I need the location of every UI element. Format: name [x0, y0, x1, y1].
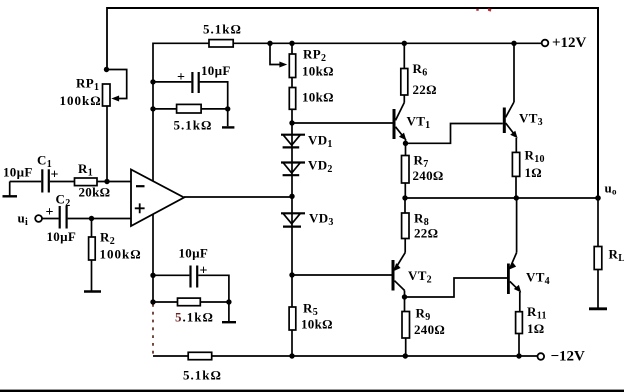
- svg-text:10kΩ: 10kΩ: [302, 90, 334, 105]
- svg-text:240Ω: 240Ω: [413, 168, 444, 183]
- label R2: [100, 230, 115, 248]
- wire: VT1 emitter to VT3 base: [406, 124, 503, 144]
- label C2: [56, 192, 71, 210]
- label 5.1k bottom net (red 5): [175, 310, 214, 325]
- wire: C1 left lead: [10, 181, 42, 183]
- svg-text:100kΩ: 100kΩ: [100, 247, 142, 262]
- node: VT1 emitter: [403, 141, 408, 146]
- capacitor C1: [42, 169, 49, 192]
- label u_o: [605, 181, 618, 197]
- svg-text:+: +: [46, 205, 54, 220]
- svg-text:1Ω: 1Ω: [527, 321, 545, 336]
- label 5.1k bottom rail: [183, 368, 222, 383]
- svg-text:240Ω: 240Ω: [414, 322, 445, 337]
- wire: to VT2 base: [292, 274, 392, 276]
- svg-text:22Ω: 22Ω: [414, 226, 438, 241]
- wire: R9 feed: [404, 297, 406, 312]
- label R7 240: [413, 168, 444, 183]
- wire: top net cap branch: [153, 81, 191, 83]
- transistor VT4: [507, 198, 521, 312]
- node: bottom net right: [226, 299, 231, 304]
- svg-text:5.1kΩ: 5.1kΩ: [175, 310, 214, 325]
- label u_i: [18, 211, 29, 229]
- node: inverting input: [104, 179, 109, 184]
- label + top cap: [177, 70, 185, 85]
- diode VD1: [281, 135, 305, 148]
- ground: input C1: [3, 182, 18, 197]
- label VD3: [309, 211, 334, 229]
- svg-text:−12V: −12V: [551, 349, 586, 365]
- label VT4: [526, 270, 550, 288]
- wire: R_L feed: [597, 198, 599, 247]
- resistor R9: [402, 312, 410, 339]
- wire: right feedback drop to output: [597, 7, 599, 198]
- node: u_o junction: [595, 195, 601, 201]
- wire: R1 to node: [97, 181, 131, 183]
- label RL: [609, 247, 624, 265]
- wire: bias chain vertical: [291, 43, 293, 356]
- label R1: [78, 161, 93, 179]
- wire: R2 drop: [91, 219, 93, 238]
- label R9: [416, 306, 431, 324]
- potentiometer RP1: [103, 84, 111, 106]
- label 10uF bottom net: [179, 246, 209, 261]
- capacitor C2: [60, 206, 67, 229]
- wire: R10 to output rail: [515, 176, 517, 198]
- wire: dashed red segment of left bus: [152, 304, 154, 355]
- svg-text:10µF: 10µF: [179, 246, 209, 261]
- wire: u_i to C2: [42, 218, 59, 220]
- label 5.1k top: [203, 22, 242, 37]
- node: +12V junction: [511, 41, 516, 46]
- node: top net left upper: [150, 79, 155, 84]
- resistor R1: [75, 178, 98, 186]
- ground: RL: [589, 270, 607, 309]
- potentiometer RP2: [289, 54, 295, 78]
- svg-text:20kΩ: 20kΩ: [79, 185, 111, 200]
- resistor 5.1k top net: [177, 104, 202, 113]
- wire: top net cap right: [200, 82, 228, 109]
- label 100k R2: [100, 247, 142, 262]
- svg-text:10kΩ: 10kΩ: [301, 317, 333, 332]
- wire: bottom net resistor branch: [153, 301, 229, 303]
- resistor 5.1k top rail: [209, 40, 233, 47]
- wire: R6 feed: [403, 43, 405, 68]
- label R10: [525, 148, 545, 166]
- node: RP1 top junction: [104, 67, 109, 72]
- bottom border bar: [0, 390, 624, 392]
- resistor 5.1k bottom net: [178, 298, 201, 306]
- svg-text:10µF: 10µF: [3, 165, 33, 180]
- resistor 10k bias: [289, 88, 295, 110]
- label +12V: [552, 35, 587, 51]
- wire: top net resistor branch: [153, 108, 228, 110]
- label VT1: [407, 114, 431, 132]
- node: chain bottom: [289, 353, 294, 358]
- terminal -12V: [538, 353, 545, 360]
- svg-text:100kΩ: 100kΩ: [60, 93, 102, 108]
- label 10k bias: [302, 90, 334, 105]
- label R8: [414, 211, 429, 229]
- node: bottom rail left column: [403, 353, 408, 358]
- svg-text:5.1kΩ: 5.1kΩ: [203, 22, 242, 37]
- label R11: [527, 304, 547, 322]
- svg-text:22Ω: 22Ω: [413, 82, 437, 97]
- node: bottom net left lower: [150, 299, 155, 304]
- node: VD1 top / VT1 base feed: [289, 120, 294, 125]
- wire: RP2 wiper: [270, 43, 287, 67]
- label VD2: [308, 158, 333, 176]
- diode VD2: [281, 163, 305, 176]
- svg-text:+: +: [200, 264, 208, 279]
- wire: to VT1 base: [292, 122, 393, 124]
- label R5 10k: [301, 317, 333, 332]
- label 20k R1: [79, 185, 111, 200]
- wire: top feedback rail: [107, 7, 598, 9]
- label RP1 value 100k: [60, 93, 102, 108]
- svg-text:+: +: [177, 70, 185, 85]
- resistor R7: [402, 156, 410, 184]
- wire: RP1 wiper loop: [107, 70, 127, 102]
- resistor R11: [516, 312, 523, 334]
- wire: RP1 top feed: [106, 7, 108, 70]
- label 10uF top net: [201, 63, 231, 78]
- svg-text:1Ω: 1Ω: [525, 165, 543, 180]
- red watermark speck 1: [476, 9, 478, 11]
- wire: R8 feed: [404, 198, 406, 213]
- wire: R11 to bottom rail: [518, 334, 520, 357]
- node: output rail right column: [514, 195, 519, 200]
- wire: C2 to op-amp: [68, 218, 131, 220]
- wire: VT2 to VT4 base: [405, 278, 508, 297]
- label VT2: [408, 268, 432, 286]
- resistor R6: [401, 69, 408, 96]
- label + C2: [46, 205, 54, 220]
- label R6 22: [413, 82, 437, 97]
- label -12V: [551, 349, 586, 365]
- transistor VT1: [393, 95, 407, 156]
- label R5: [303, 301, 318, 319]
- svg-text:10µF: 10µF: [201, 63, 231, 78]
- terminal +12V: [542, 40, 549, 47]
- label RP2 10k: [302, 64, 334, 79]
- node: bottom net left upper: [150, 273, 155, 278]
- transistor VT3: [503, 43, 518, 152]
- svg-text:+: +: [51, 168, 59, 183]
- resistor R5: [289, 307, 296, 330]
- resistor R8: [402, 213, 409, 239]
- label R8 22: [414, 226, 438, 241]
- wire: op-amp output: [184, 196, 292, 198]
- label + C1: [51, 168, 59, 183]
- op-amp U1: [131, 170, 184, 227]
- node: output rail left column: [402, 195, 407, 200]
- wire: inner top rail: [153, 42, 542, 44]
- capacitor 10uF top net: [192, 72, 198, 93]
- svg-text:5.1kΩ: 5.1kΩ: [174, 118, 213, 133]
- node: op-amp output junction: [289, 194, 294, 199]
- resistor R2: [89, 237, 96, 260]
- diode VD3: [281, 213, 305, 226]
- svg-text:10kΩ: 10kΩ: [302, 64, 334, 79]
- wire: RP1 bottom to R1 node: [106, 106, 108, 181]
- node: rail RP2 wiper tap: [267, 41, 272, 46]
- label VD1: [308, 133, 333, 151]
- label R9 240: [414, 322, 445, 337]
- label 10uF C1: [3, 165, 33, 180]
- label 10uF C2: [47, 229, 77, 244]
- transistor VT2: [392, 239, 406, 298]
- wire: left vertical bus x153: [152, 43, 154, 303]
- wire: bottom net cap right: [198, 275, 229, 302]
- label R10 1ohm: [525, 165, 543, 180]
- label + bottom cap: [200, 264, 208, 279]
- node: bottom rail right column: [516, 353, 521, 358]
- node: R6 top: [402, 41, 407, 46]
- label R7: [414, 153, 429, 171]
- svg-text:5.1kΩ: 5.1kΩ: [183, 368, 222, 383]
- node: top net right: [225, 106, 230, 111]
- wire: C1 to R1: [50, 181, 75, 183]
- ground: top net: [222, 109, 234, 128]
- svg-text:10µF: 10µF: [47, 229, 77, 244]
- resistor 5.1k bottom rail: [188, 352, 212, 359]
- wire: output rail to u_o: [405, 197, 598, 199]
- wire: bottom net cap branch: [153, 274, 189, 276]
- ground: R2: [84, 260, 101, 292]
- node: rail RP2 top: [289, 41, 294, 46]
- capacitor 10uF bottom net: [191, 266, 198, 288]
- wire: R7 to output rail: [404, 183, 406, 198]
- resistor R10: [512, 152, 519, 176]
- label RP2: [303, 47, 326, 65]
- node: VD3 bottom / VT2 base feed: [289, 272, 294, 277]
- node: VT2 collector bottom: [402, 294, 407, 299]
- red watermark speck 2: [488, 8, 492, 11]
- terminal u_i: [35, 215, 42, 222]
- wire: R9 to bottom rail: [405, 338, 407, 356]
- ground: bottom net: [222, 302, 236, 322]
- wire: bottom rail: [153, 355, 538, 357]
- label R11 1ohm: [527, 321, 545, 336]
- label VT3: [519, 111, 543, 129]
- resistor RL: [594, 247, 602, 270]
- node: top net left lower: [150, 106, 155, 111]
- node: non-inverting input: [89, 216, 94, 221]
- label RP1: [76, 76, 99, 94]
- label C1: [37, 153, 52, 171]
- label 5.1k top net: [174, 118, 213, 133]
- svg-text:+12V: +12V: [552, 35, 587, 51]
- label R6: [413, 61, 428, 79]
